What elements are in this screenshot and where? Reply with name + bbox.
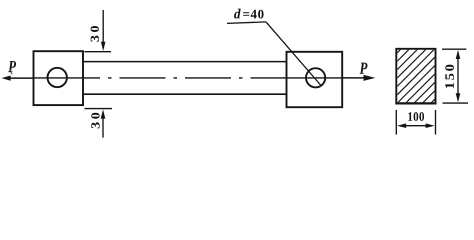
right pin hole [306,68,325,87]
left pin hole [48,68,67,87]
dimension 150: top extension line [442,48,466,50]
label d=40: italic d [234,9,241,19]
stray tick above left arrowhead [10,69,12,74]
dimension 150: dimension line with arrows [456,50,461,103]
bar top edge [83,61,287,63]
dimension 30 bottom: arrow [101,109,106,137]
dimension 150: value text [445,65,454,88]
dimension 150: bottom extension line [443,102,469,104]
label d=40 underline [227,22,266,24]
bar bottom edge [83,93,287,95]
force label P (left) [8,61,16,72]
dimension 30 bottom: value text [91,113,99,129]
dimension 100: left extension line [395,110,397,135]
dimension 100: value text [408,112,424,121]
dimension 30 bottom: extension line [85,108,113,110]
centerline through right plate [287,77,343,79]
left end plate [34,51,84,105]
dimension 100: dimension line with arrows [397,123,435,128]
force arrow P (left) [2,76,35,81]
force label P (right) [360,63,368,74]
dimension 30 top: arrow [101,10,106,51]
force arrow P (right) [342,75,375,81]
label d=40 leader line to hole [266,22,321,86]
dimension 100: right extension line [435,110,437,135]
dimension 30 top: extension line [85,51,112,53]
cross-section hatching [336,31,474,114]
centerline through left plate [34,77,87,79]
right end plate [287,52,343,107]
label d=40: =40 [243,10,263,19]
cross-section outline [396,49,435,104]
dimension 30 top: value text [91,26,99,42]
cross-section bottom edge (thicker) [395,102,436,104]
centerline (dash-dot) between plates [87,77,287,79]
